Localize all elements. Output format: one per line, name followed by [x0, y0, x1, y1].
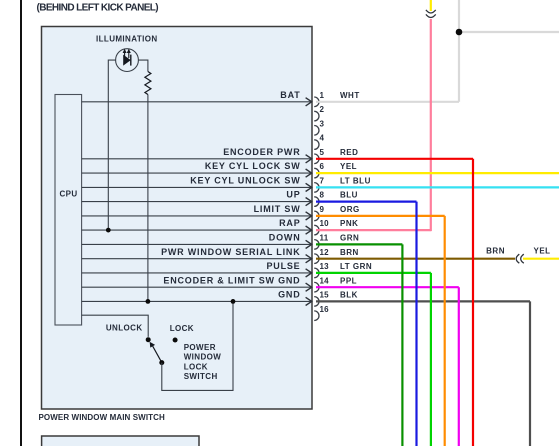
svg-text:LT BLU: LT BLU — [340, 177, 371, 186]
svg-text:3: 3 — [320, 119, 325, 128]
svg-text:LT GRN: LT GRN — [340, 262, 372, 271]
wire CPU to pin 15 (GND) with arrowhead — [82, 290, 312, 306]
switch common dot — [159, 360, 164, 365]
wire CPU to pin 7 (KEY CYL UNLOCK SW) with arrowhead — [82, 176, 312, 192]
power window main switch box — [42, 27, 313, 410]
inline connector (BRN to YEL) — [516, 254, 524, 263]
svg-text:5: 5 — [320, 148, 325, 157]
wire CPU to pin 8 (UP) with arrowhead — [82, 190, 312, 206]
connector pin 10 terminal arc and number — [314, 219, 329, 235]
svg-text:RED: RED — [340, 148, 358, 157]
wire LED cathode to resistor — [138, 60, 148, 71]
connector pin 13 terminal arc and number — [314, 262, 329, 278]
svg-text:YEL: YEL — [340, 162, 357, 171]
wire CPU to pin 6 (KEY CYL LOCK SW) with arrowhead — [82, 161, 312, 177]
svg-text:BRN: BRN — [340, 248, 359, 257]
wire YEL pin 6 — [316, 172, 559, 174]
wire LED anode to RAP row — [108, 60, 115, 230]
wire CPU to pin 10 (RAP) with arrowhead — [82, 218, 312, 234]
svg-text:2: 2 — [320, 105, 325, 114]
svg-text:BLU: BLU — [340, 191, 358, 200]
resistor R (illumination) — [145, 72, 151, 95]
svg-text:7: 7 — [320, 177, 325, 186]
svg-text:UP: UP — [286, 190, 300, 200]
connector pin 8 terminal arc and number — [314, 191, 324, 207]
second component box (bottom, cut off) — [42, 436, 199, 446]
svg-text:ILLUMINATION: ILLUMINATION — [96, 35, 158, 44]
connector pin 6 terminal arc and number — [314, 162, 324, 178]
connector pin 2 terminal arc and number — [314, 105, 324, 121]
CPU U1 box — [55, 95, 82, 326]
svg-text:DOWN: DOWN — [269, 233, 301, 243]
wire LT GRN pin 13 — [316, 273, 431, 446]
LED illumination lamp — [116, 49, 139, 72]
label POWER WINDOW LOCK SWITCH — [184, 343, 222, 381]
svg-text:POWER WINDOW MAIN SWITCH: POWER WINDOW MAIN SWITCH — [39, 413, 166, 422]
svg-text:LOCK: LOCK — [170, 324, 194, 333]
switch SW lever with arrowhead — [150, 342, 162, 363]
svg-text:16: 16 — [320, 305, 330, 314]
wire RED pin 5 — [316, 159, 473, 446]
wire BLK pin 15 — [316, 301, 530, 446]
inline connector C (YEL to PNK) — [426, 10, 436, 18]
svg-text:6: 6 — [320, 162, 325, 171]
svg-text:4: 4 — [320, 134, 325, 143]
wire CPU to pin 14 (ENCODER &amp; LIMIT SW GND) with arrowhead — [82, 275, 312, 291]
connector pin 3 terminal arc and number — [314, 119, 324, 135]
wire resistor to GND row — [147, 95, 149, 302]
wire PNK pin 10 going up to connector — [316, 19, 431, 231]
svg-text:9: 9 — [320, 205, 325, 214]
connector pin 14 terminal arc and number — [314, 276, 329, 292]
svg-text:1: 1 — [320, 91, 325, 100]
wire YEL stub at top connector — [430, 0, 432, 11]
svg-text:UNLOCK: UNLOCK — [106, 324, 143, 333]
svg-text:ENCODER & LIMIT SW GND: ENCODER & LIMIT SW GND — [163, 275, 300, 285]
connector pin 9 terminal arc and number — [314, 205, 324, 221]
svg-text:11: 11 — [320, 234, 329, 243]
connector pin 5 terminal arc and number — [314, 148, 324, 164]
wire CPU to pin 11 (DOWN) with arrowhead — [82, 233, 312, 249]
wire YEL after connector — [523, 258, 559, 260]
wire CPU to pin 13 (PULSE) with arrowhead — [82, 261, 312, 277]
wire ORG pin 9 — [316, 216, 445, 446]
svg-text:LOCK: LOCK — [184, 362, 208, 371]
svg-text:12: 12 — [320, 248, 330, 257]
svg-text:ORG: ORG — [340, 205, 360, 214]
connector pin 7 terminal arc and number — [314, 177, 324, 193]
connector pin 15 terminal arc and number — [314, 291, 329, 307]
junction block boundary line (left) — [20, 0, 22, 446]
svg-text:GRN: GRN — [340, 234, 359, 243]
LOCK contact dot — [173, 338, 178, 343]
wire LT BLU pin 7 — [316, 186, 559, 188]
wire WHT pin 1 net — [316, 0, 559, 102]
svg-text:PWR WINDOW SERIAL LINK: PWR WINDOW SERIAL LINK — [161, 247, 300, 257]
svg-text:PPL: PPL — [340, 276, 357, 285]
junction dot switch return on GND row — [231, 299, 236, 304]
wire switch common to GND row — [162, 301, 233, 390]
connector pin 11 terminal arc and number — [314, 234, 329, 250]
svg-text:GND: GND — [278, 290, 300, 300]
wire GRN pin 11 — [316, 244, 402, 446]
svg-text:BLK: BLK — [340, 291, 358, 300]
connector pin 12 terminal arc and number — [314, 248, 329, 264]
svg-text:13: 13 — [320, 262, 330, 271]
svg-text:LIMIT SW: LIMIT SW — [254, 204, 301, 214]
UNLOCK contact dot — [146, 337, 151, 342]
svg-text:KEY CYL LOCK SW: KEY CYL LOCK SW — [205, 161, 301, 171]
junction dot on RAP row — [106, 228, 111, 233]
junction dot resistor to GND row — [146, 299, 151, 304]
svg-text:14: 14 — [320, 276, 330, 285]
svg-text:ENCODER PWR: ENCODER PWR — [223, 147, 300, 157]
svg-text:PNK: PNK — [340, 219, 358, 228]
svg-text:BRN: BRN — [486, 247, 505, 256]
svg-text:WINDOW: WINDOW — [184, 353, 222, 362]
svg-text:CPU: CPU — [60, 190, 78, 199]
wire CPU to UNLOCK contact — [82, 315, 149, 337]
junction dot WHT node — [456, 29, 463, 36]
svg-text:15: 15 — [320, 291, 330, 300]
svg-text:WHT: WHT — [340, 91, 360, 100]
svg-text:(BEHIND LEFT KICK PANEL): (BEHIND LEFT KICK PANEL) — [37, 2, 159, 13]
wire CPU to pin 12 (PWR WINDOW SERIAL LINK) with arrowhead — [82, 247, 312, 263]
wire CPU to pin 9 (LIMIT SW) with arrowhead — [82, 204, 312, 220]
svg-text:BAT: BAT — [280, 90, 300, 100]
svg-text:10: 10 — [320, 219, 330, 228]
svg-text:YEL: YEL — [534, 247, 551, 256]
svg-text:RAP: RAP — [279, 218, 300, 228]
connector pin 4 terminal arc and number — [314, 134, 324, 150]
wire CPU to pin 1 (BAT) with arrowhead — [82, 90, 312, 106]
svg-text:PULSE: PULSE — [266, 261, 300, 271]
svg-text:POWER: POWER — [184, 343, 216, 352]
wire BLU pin 8 — [316, 202, 417, 446]
svg-text:SWITCH: SWITCH — [184, 372, 218, 381]
connector pin 16 terminal arc and number — [314, 305, 329, 321]
svg-text:KEY CYL UNLOCK SW: KEY CYL UNLOCK SW — [190, 176, 300, 186]
svg-text:8: 8 — [320, 191, 325, 200]
connector pin 1 terminal arc and number — [314, 91, 324, 107]
wire BRN pin 12 to inline connector — [316, 258, 515, 260]
wire PPL pin 14 — [316, 287, 459, 446]
wire CPU to pin 5 (ENCODER PWR) with arrowhead — [82, 147, 312, 163]
